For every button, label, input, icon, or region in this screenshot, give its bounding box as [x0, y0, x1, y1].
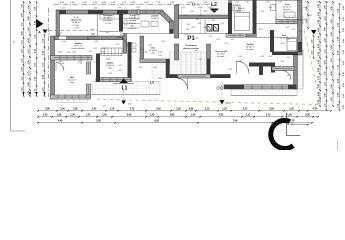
svg-text:0.35: 0.35 [316, 2, 320, 4]
property boundary dashed olive south [97, 99, 321, 104]
svg-text:2,50: 2,50 [156, 108, 161, 110]
right wing interior band with window [226, 34, 257, 37]
terrace dash-dot line [49, 30, 99, 32]
svg-text:+1,35: +1,35 [94, 62, 98, 64]
svg-text:+1,35: +1,35 [285, 27, 289, 29]
svg-text:ker.park.: ker.park. [217, 56, 225, 58]
ne room thin walls [257, 23, 277, 25]
hall wardrobe row [101, 48, 122, 55]
svg-text:2,40: 2,40 [92, 107, 97, 110]
L2 arrow triangle [210, 9, 220, 14]
north wall pier 3 [117, 10, 128, 14]
bedroom2 east wall dark [253, 0, 257, 35]
svg-text:+1,35: +1,35 [280, 61, 284, 63]
svg-text:2,50: 2,50 [269, 108, 274, 110]
svg-text:11.44 m²: 11.44 m² [106, 64, 114, 67]
entry steps below south wall [57, 99, 87, 102]
svg-text:+1,35: +1,35 [238, 56, 242, 58]
paving tile grid south apron [92, 82, 160, 95]
svg-text:23-8: 23-8 [128, 104, 131, 106]
svg-text:+1,35: +1,35 [258, 29, 262, 31]
terrace west wall dark corner [166, 59, 170, 76]
svg-text:vlys: vlys [108, 68, 112, 70]
svg-text:+1,35: +1,35 [118, 70, 122, 72]
svg-text:+1,35: +1,35 [260, 11, 264, 13]
svg-text:8,28: 8,28 [154, 120, 159, 122]
svg-text:8.05 m²: 8.05 m² [129, 22, 136, 25]
svg-text:+1,35: +1,35 [286, 57, 290, 59]
entry door arc right wing [237, 61, 250, 74]
L1 arrow triangle [120, 79, 129, 84]
svg-text:+1,35: +1,35 [199, 15, 203, 17]
left dimension chains [23, 2, 25, 96]
north wall pier 1 [57, 10, 67, 14]
boundary survey point marker [220, 100, 225, 105]
west exterior wall upper [56, 10, 60, 36]
svg-text:+1,35: +1,35 [158, 78, 162, 80]
ne corner pier dark [298, 20, 303, 24]
svg-text:1,40: 1,40 [191, 113, 196, 116]
svg-text:+1,35: +1,35 [260, 56, 264, 58]
svg-text:0.35: 0.35 [266, 2, 270, 4]
svg-text:+1,35: +1,35 [118, 65, 122, 67]
bottom dimension chain row1 [38, 110, 331, 112]
boundary marker vertical gray dashed [221, 84, 223, 102]
svg-text:L1: L1 [122, 86, 128, 92]
svg-text:+1,35: +1,35 [153, 67, 157, 69]
column bases pair [216, 75, 218, 78]
svg-text:+1,35: +1,35 [136, 7, 140, 9]
north symbol thin vertical line [285, 113, 287, 136]
svg-text:vlys: vlys [151, 53, 155, 55]
svg-text:1,40: 1,40 [43, 113, 48, 116]
svg-text:1,75: 1,75 [86, 114, 91, 116]
svg-text:Spálňa: Spálňa [107, 62, 115, 65]
svg-text:+1.35: +1.35 [105, 23, 111, 25]
svg-text:+1,35: +1,35 [148, 45, 152, 47]
north wall window glazing lines [66, 10, 88, 12]
svg-text:+1,35: +1,35 [253, 7, 257, 9]
svg-text:12.57 m²: 12.57 m² [74, 45, 83, 48]
svg-text:+1,35: +1,35 [224, 77, 228, 79]
svg-text:Špajza: Špajza [129, 14, 136, 17]
svg-text:+1,35: +1,35 [203, 11, 207, 13]
dining table fixtures [141, 21, 149, 27]
right wing west wall dark [228, 3, 232, 35]
svg-text:1,50: 1,50 [287, 114, 292, 116]
kitchen east wall dark [119, 10, 123, 32]
ne room table [284, 12, 295, 18]
svg-text:15.88 m²: 15.88 m² [72, 21, 81, 24]
svg-text:+1,35: +1,35 [291, 29, 295, 31]
svg-text:+1,35: +1,35 [245, 36, 249, 38]
svg-text:10.80 m²: 10.80 m² [104, 17, 113, 20]
svg-text:1,38: 1,38 [73, 108, 78, 110]
svg-text:2.15 m²: 2.15 m² [129, 17, 136, 20]
svg-text:+1,35: +1,35 [268, 33, 272, 35]
north symbol thin horizontal line [286, 135, 300, 137]
svg-text:+1,35: +1,35 [128, 57, 132, 59]
washing machine fixture [233, 5, 240, 11]
south wall right wing band [224, 85, 296, 89]
svg-text:+1,35: +1,35 [94, 41, 98, 43]
stair east wall upper gray [207, 44, 211, 59]
svg-text:+1,35: +1,35 [115, 44, 119, 46]
svg-text:3,40: 3,40 [127, 113, 132, 116]
bottom dimension chain row2 [38, 116, 318, 118]
ne room wardrobe row [271, 5, 276, 11]
svg-text:+1,35: +1,35 [117, 7, 121, 9]
center-south west pier dark [96, 54, 100, 82]
svg-text:3.45 m²: 3.45 m² [238, 9, 245, 12]
svg-text:+1,35: +1,35 [194, 50, 198, 52]
living/kitchen divider thin [97, 14, 99, 36]
dining corner diagonal wall [159, 10, 173, 24]
terrace south-west dark wall [166, 74, 178, 78]
svg-text:+1,35: +1,35 [158, 55, 162, 57]
ne outer dimension line [307, 2, 309, 28]
stair east wall dark [207, 59, 211, 78]
svg-text:+1,35: +1,35 [183, 15, 187, 17]
svg-text:+1,35: +1,35 [61, 8, 65, 10]
wc divider [204, 19, 206, 34]
top edge cut wall right wing [232, 0, 253, 2]
svg-text:1,00: 1,00 [60, 108, 65, 110]
svg-text:+1,35: +1,35 [194, 38, 198, 40]
svg-text:0,88: 0,88 [189, 108, 194, 110]
svg-text:Kuchyňa: Kuchyňa [103, 14, 113, 17]
central spine wall gray [175, 5, 179, 38]
door arc sw room [56, 63, 64, 71]
east inner chain ticks [313, 35, 315, 37]
svg-text:4,20: 4,20 [219, 113, 224, 116]
svg-text:+1,35: +1,35 [185, 29, 189, 31]
hall south wall band [179, 74, 211, 78]
east inner dimension line [313, 36, 315, 58]
svg-text:1,13: 1,13 [246, 114, 251, 116]
small circle symbol on roof line [192, 3, 195, 6]
bottom dimension chain row3 [38, 122, 312, 124]
svg-text:+1,35: +1,35 [230, 39, 234, 41]
kitchen counter [100, 15, 119, 20]
wc north wall band [179, 15, 229, 19]
paving tile grid north-east strip [276, 16, 303, 24]
center-south window band [96, 78, 131, 82]
hall window band south [140, 59, 170, 63]
right middle thin wall [257, 36, 299, 38]
svg-text:+1,35: +1,35 [88, 51, 92, 53]
west exterior wall lower [51, 36, 55, 99]
svg-text:+1,35: +1,35 [203, 27, 207, 29]
svg-text:+1.35: +1.35 [73, 27, 79, 29]
svg-text:+1,35: +1,35 [108, 73, 112, 75]
center hall thin wall [99, 53, 127, 55]
north wall band left wing [57, 10, 141, 14]
bed ne-middle room [287, 39, 297, 51]
paving tile grid terrace center [170, 52, 207, 78]
right middle dark wall [270, 30, 274, 52]
svg-text:Obývačka: Obývačka [71, 19, 82, 22]
svg-text:Spálňa: Spálňa [74, 42, 82, 45]
interior wall living/bedroom [55, 36, 88, 40]
center dark wall x128 [128, 42, 132, 82]
svg-text:2,80: 2,80 [170, 114, 175, 116]
svg-text:1,50: 1,50 [102, 114, 107, 116]
svg-text:Pochôdzna: Pochôdzna [185, 44, 197, 47]
svg-text:1,13: 1,13 [110, 108, 115, 110]
east small triangle marker [311, 30, 317, 35]
svg-text:4,70: 4,70 [313, 107, 318, 110]
big C compass arc [271, 120, 293, 148]
dining east wall [170, 21, 174, 34]
west wall dark footer [51, 95, 55, 99]
door gap in interior wall [59, 37, 67, 40]
svg-text:+1,35: +1,35 [286, 75, 290, 77]
svg-text:A4: A4 [13, 41, 16, 43]
south wall left wing with windows [51, 95, 91, 99]
svg-text:3,30: 3,30 [96, 120, 101, 122]
south wall dark pier right wing [224, 85, 244, 89]
page fold border line left [10, 0, 12, 131]
ne room inner divider [275, 0, 277, 20]
section marker A small triangle [43, 30, 48, 34]
svg-text:11.42 m²: 11.42 m² [68, 79, 77, 82]
ne room window band [276, 20, 302, 24]
svg-text:+1,35: +1,35 [62, 41, 66, 43]
wc fixtures left col [132, 43, 136, 47]
roof overhang dash-dot line left [48, 8, 50, 97]
svg-text:+1,35: +1,35 [211, 20, 215, 22]
svg-text:+1,35: +1,35 [161, 41, 165, 43]
svg-text:+1,35: +1,35 [66, 52, 70, 54]
izba south dark wall [272, 52, 300, 56]
svg-text:+1,35: +1,35 [238, 61, 242, 63]
door arc kitchen-hall [118, 37, 128, 47]
svg-text:L3: L3 [150, 81, 154, 85]
svg-text:+1,35: +1,35 [195, 19, 199, 21]
small door arc se [282, 71, 291, 80]
east exterior wall upper [298, 0, 303, 20]
north wall pier 4 [138, 10, 142, 14]
svg-text:+1,35: +1,35 [58, 33, 62, 35]
svg-text:+1,35: +1,35 [228, 69, 232, 71]
vestibule stepped dark wall [249, 63, 275, 67]
ne outer chain ticks [307, 1, 309, 3]
svg-text:+1,35: +1,35 [216, 39, 220, 41]
svg-text:+1,35: +1,35 [90, 29, 94, 31]
svg-text:+1,35: +1,35 [105, 32, 109, 34]
bath south thin wall [127, 33, 171, 35]
svg-text:+1,35: +1,35 [298, 31, 302, 33]
svg-text:0.35: 0.35 [235, 2, 239, 4]
paving tile grid east strip [296, 50, 303, 89]
svg-text:+1,35: +1,35 [93, 48, 97, 50]
svg-text:13.96 m²: 13.96 m² [151, 17, 159, 20]
central spine wall lower [175, 44, 179, 60]
door arc hall to terrace [177, 78, 188, 89]
svg-text:+1,35: +1,35 [198, 59, 202, 61]
svg-text:1,30: 1,30 [70, 114, 75, 116]
svg-text:+1,35: +1,35 [181, 7, 185, 9]
roof hatch vertical lines P1 [180, 52, 182, 76]
svg-text:+1,35: +1,35 [208, 36, 212, 38]
svg-text:+1,35: +1,35 [280, 43, 284, 45]
svg-text:+1,35: +1,35 [93, 8, 97, 10]
vestibule window band east [272, 67, 294, 71]
east exterior wall mid gray [298, 20, 303, 55]
svg-text:0.35: 0.35 [278, 2, 282, 4]
svg-text:keram.dlažba: keram.dlažba [71, 47, 85, 50]
svg-text:1,25: 1,25 [222, 108, 227, 110]
svg-text:ker.park.: ker.park. [246, 49, 254, 51]
L1 dashed axis [123, 91, 125, 101]
kitchen south thin wall [99, 31, 119, 33]
svg-text:23-1/2: 23-1/2 [226, 103, 231, 105]
svg-text:+1,35: +1,35 [208, 7, 212, 9]
svg-text:+1,35: +1,35 [191, 27, 195, 29]
svg-text:4,40: 4,40 [58, 119, 63, 122]
svg-text:+1,35: +1,35 [128, 43, 132, 45]
svg-text:+1,35: +1,35 [198, 7, 202, 9]
svg-text:+1,35: +1,35 [102, 48, 106, 50]
svg-text:+1,35: +1,35 [184, 34, 188, 36]
svg-text:2,75: 2,75 [266, 114, 271, 116]
svg-text:1,50: 1,50 [176, 108, 181, 110]
svg-text:7,40: 7,40 [233, 119, 238, 122]
svg-text:2,75: 2,75 [130, 108, 135, 110]
survey double circles [217, 87, 220, 90]
paving grid patch north center [196, 0, 228, 15]
dining north wall band [137, 10, 163, 14]
svg-text:+8,35: +8,35 [187, 2, 193, 4]
south-west room east window band upper [87, 62, 91, 74]
east exterior wall lower gray [294, 55, 298, 89]
svg-text:+1,35: +1,35 [268, 56, 272, 58]
svg-text:+1,35: +1,35 [224, 43, 228, 45]
south-west room east window band lower [87, 84, 91, 95]
roof overhang dash-dot line top [54, 3, 213, 5]
svg-text:1,38: 1,38 [57, 114, 62, 116]
wc fixtures dark [207, 25, 212, 32]
wc south thin wall [179, 33, 228, 35]
svg-text:0.35: 0.35 [245, 2, 249, 4]
right margin small lines [337, 139, 339, 150]
svg-text:+1,35: +1,35 [197, 23, 201, 25]
svg-text:+1,35: +1,35 [286, 39, 290, 41]
north wall pier 2 [88, 10, 103, 14]
property boundary dashed olive east diagonal [304, 30, 321, 105]
wc room divider [140, 36, 144, 62]
svg-text:3,30: 3,30 [305, 114, 310, 116]
svg-text:2,13: 2,13 [205, 108, 210, 110]
bedroom south window band [51, 56, 93, 61]
svg-text:2,75: 2,75 [243, 108, 248, 110]
extra short dim line 4 [287, 124, 308, 126]
svg-text:1.40 m²: 1.40 m² [129, 27, 136, 30]
center interior wall band [88, 36, 123, 40]
pantry fixtures [124, 20, 127, 25]
section marker A triangle [36, 19, 44, 29]
paving tile grid south-east apron [231, 89, 297, 96]
svg-text:2,00: 2,00 [45, 108, 50, 110]
right dimension chains [319, 2, 321, 106]
pantry column dividers [123, 18, 140, 20]
paving edge lines [92, 94, 160, 96]
svg-text:+1,35: +1,35 [186, 24, 190, 26]
center room divider vertical [123, 34, 127, 53]
svg-text:1,50: 1,50 [289, 108, 294, 110]
svg-text:+1,35: +1,35 [268, 7, 272, 9]
svg-text:ker.dlažba: ker.dlažba [103, 19, 114, 22]
svg-text:+1,35: +1,35 [298, 42, 302, 44]
svg-text:1,20: 1,20 [150, 114, 155, 116]
svg-text:+1,35: +1,35 [190, 11, 194, 13]
svg-text:Jedáleň: Jedáleň [151, 15, 159, 18]
east wall dark pier [298, 42, 303, 52]
hall floor tile patch [152, 63, 166, 79]
L1 axis survey marker [121, 101, 126, 105]
svg-text:ker.park.: ker.park. [283, 8, 291, 11]
sw corner dark wall right wing [211, 74, 231, 78]
svg-text:5.06 m²: 5.06 m² [90, 35, 97, 38]
svg-text:+1,35: +1,35 [138, 67, 142, 69]
bedroom2 bed outline [235, 13, 250, 31]
svg-text:+1,35: +1,35 [220, 23, 224, 25]
